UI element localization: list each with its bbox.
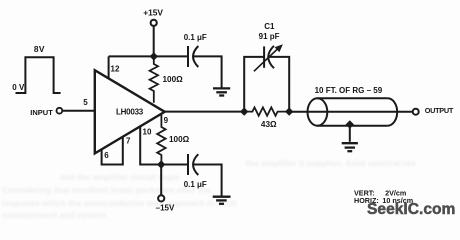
svg-text:8V: 8V <box>34 44 45 54</box>
wire pins 6-7 jumper <box>102 137 123 165</box>
wire shield to ground <box>349 125 351 142</box>
svg-text:7: 7 <box>126 137 131 146</box>
arrow of variable capacitor C1 <box>254 48 279 72</box>
svg-text:INPUT: INPUT <box>30 108 53 117</box>
svg-text:C1: C1 <box>264 22 275 31</box>
svg-text:5: 5 <box>83 98 88 107</box>
capacitor 0.1uF top <box>188 46 198 67</box>
junction node C <box>285 107 293 115</box>
input terminal <box>57 108 63 114</box>
svg-text:Considering that excellent lin: Considering that excellent linear packag… <box>2 185 211 195</box>
wire top capacitor to ground <box>193 56 221 87</box>
-15V terminal <box>158 195 164 201</box>
ground (coax shield) <box>342 143 358 151</box>
svg-text:+15V: +15V <box>143 8 163 18</box>
wire output apex to node B <box>165 111 245 113</box>
wire C1 branch right <box>269 57 289 112</box>
pin 10 wire <box>140 126 161 164</box>
ghost bleed-through text rows (decorative) <box>2 158 416 220</box>
wire +15V to junction <box>153 26 155 56</box>
wire bottom capacitor to ground <box>193 165 221 196</box>
wire pin12 to +15V junction <box>109 55 154 57</box>
svg-text:OUTPUT: OUTPUT <box>425 106 454 115</box>
capacitor C1 variable 91pF <box>264 46 274 68</box>
junction +15V node <box>150 52 158 60</box>
svg-text:LH0033: LH0033 <box>116 108 144 117</box>
svg-text:91 pF: 91 pF <box>259 32 280 41</box>
junction coax shield <box>346 120 354 128</box>
junction -15V node <box>157 160 165 168</box>
op-amp U1 LH0033 buffer triangle <box>95 70 165 153</box>
wire junction to top capacitor <box>154 55 188 57</box>
svg-text:12: 12 <box>111 65 120 74</box>
wire junction to bottom capacitor <box>161 164 188 166</box>
+15V terminal <box>151 20 157 26</box>
wire junction to -15V terminal <box>160 165 162 196</box>
svg-text:6: 6 <box>104 151 109 160</box>
wire input to pin 5 <box>62 110 94 112</box>
junction node B <box>240 107 248 115</box>
pin 12 wire <box>108 56 110 78</box>
svg-text:response which the semiconduct: response which the semiconductor may app… <box>2 198 237 208</box>
svg-text:–15V: –15V <box>156 204 175 213</box>
input pulse waveform <box>16 57 61 93</box>
resistor 43 ohm <box>244 107 289 115</box>
coax cable RG-59 <box>308 98 398 125</box>
svg-text:0 V: 0 V <box>12 83 25 92</box>
svg-text:43Ω: 43Ω <box>261 120 277 129</box>
svg-text:10: 10 <box>143 127 152 136</box>
output terminal <box>413 109 419 115</box>
svg-text:0.1 μF: 0.1 μF <box>184 180 207 189</box>
ground (top bypass) <box>213 88 230 95</box>
svg-text:9: 9 <box>164 116 169 125</box>
wire node C through coax to output <box>289 111 413 113</box>
wire C1 branch left <box>244 57 264 112</box>
svg-text:100Ω: 100Ω <box>169 135 190 144</box>
svg-text:100Ω: 100Ω <box>163 75 184 84</box>
svg-text:the amplifier it supplies. Axi: the amplifier it supplies. Axial spectra… <box>246 158 416 168</box>
ground (bottom bypass) <box>213 197 231 204</box>
svg-text:SeekIC.com: SeekIC.com <box>367 201 455 218</box>
svg-text:10 FT. OF RG – 59: 10 FT. OF RG – 59 <box>315 86 383 95</box>
resistor 100 ohm top <box>150 56 158 102</box>
resistor 100 ohm bottom <box>157 114 165 165</box>
svg-text:0.1 μF: 0.1 μF <box>184 33 207 42</box>
svg-text:measurement and system: measurement and system <box>2 210 107 220</box>
capacitor 0.1uF bottom <box>188 154 198 175</box>
